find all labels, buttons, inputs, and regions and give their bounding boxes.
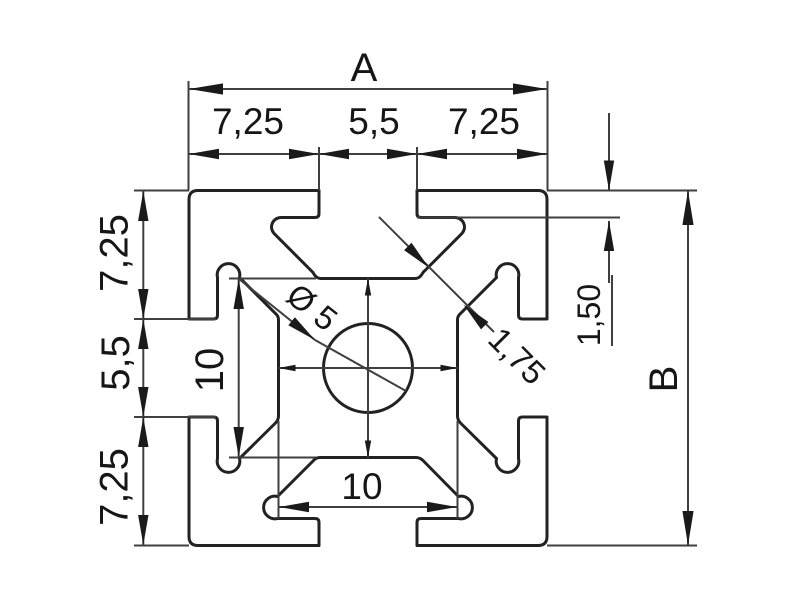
extension line lip underside right <box>417 217 620 219</box>
extension line bottom face right <box>547 545 697 547</box>
right T-slot pocket <box>458 264 546 473</box>
left chain dimension line <box>142 191 144 546</box>
svg-text:B: B <box>642 366 686 393</box>
vertical centerline with arrows <box>367 279 369 458</box>
extension line slot opening right <box>416 147 418 191</box>
dimension line B <box>687 191 689 546</box>
center bore circle <box>324 324 413 413</box>
dimension 1,50 lower arrow <box>608 221 610 283</box>
svg-text:7,25: 7,25 <box>448 101 520 142</box>
extension line left opening top <box>134 318 216 320</box>
core right edge extension line <box>457 421 459 519</box>
arrowhead 1,75 lower <box>464 305 489 330</box>
svg-text:10: 10 <box>188 348 232 393</box>
extension line left face top <box>188 81 190 191</box>
left T-slot pocket <box>191 264 279 473</box>
svg-text:5,5: 5,5 <box>94 335 138 391</box>
extension line bottom face left <box>134 545 189 547</box>
extension line right face top <box>547 81 549 191</box>
chain dimension line 7,25/5,5/7,25 <box>189 153 548 155</box>
dimension line A <box>189 88 548 90</box>
left slot 10 dimension line <box>238 279 240 458</box>
diameter leader arrowhead <box>288 317 315 340</box>
svg-text:A: A <box>351 46 378 90</box>
svg-text:7,25: 7,25 <box>93 448 137 526</box>
top T-slot pocket <box>272 191 465 279</box>
extension line top face right <box>547 190 697 192</box>
bottom T-slot pocket <box>264 458 473 546</box>
svg-text:10: 10 <box>341 466 382 507</box>
extension line top face left <box>134 190 189 192</box>
diameter line through bore <box>315 340 406 391</box>
svg-text:7,25: 7,25 <box>212 101 284 142</box>
line for 1,75 measurement <box>379 217 494 332</box>
core left edge extension line <box>278 421 280 519</box>
core bottom edge extension line <box>229 457 316 459</box>
svg-text:5,5: 5,5 <box>348 101 399 142</box>
svg-text:1,50: 1,50 <box>571 284 607 346</box>
arrowhead 1,75 upper <box>404 243 429 268</box>
extension line slot opening left <box>318 147 320 191</box>
extension line left opening bottom <box>134 416 216 418</box>
underline of 1,50 <box>611 275 613 346</box>
core top edge extension line <box>229 278 316 280</box>
horizontal centerline with arrows <box>279 367 458 369</box>
outer profile square faces with corner fillets <box>189 191 319 320</box>
svg-text:7,25: 7,25 <box>93 214 137 292</box>
diameter leader line <box>239 279 315 340</box>
dimension 1,50 upper arrow <box>608 113 610 191</box>
bottom slot 10 dimension line <box>279 506 458 508</box>
